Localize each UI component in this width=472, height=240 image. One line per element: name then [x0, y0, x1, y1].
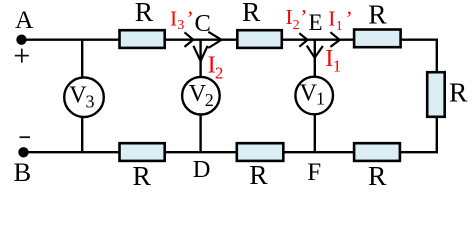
svg-text:V: V [300, 81, 318, 107]
svg-text:R: R [368, 0, 387, 30]
svg-text:R: R [242, 0, 261, 27]
svg-text:’: ’ [187, 6, 194, 30]
svg-text:2: 2 [215, 63, 224, 82]
svg-text:I: I [170, 6, 177, 30]
svg-text:1: 1 [316, 89, 325, 109]
svg-text:C: C [195, 10, 211, 37]
svg-text:I: I [328, 7, 335, 31]
svg-text:B: B [14, 157, 32, 187]
svg-text:3: 3 [177, 18, 184, 33]
svg-text:1: 1 [336, 19, 343, 34]
svg-text:2: 2 [205, 90, 214, 110]
svg-text:2: 2 [293, 18, 300, 33]
svg-text:R: R [135, 0, 154, 27]
svg-text:I: I [286, 5, 293, 29]
svg-text:F: F [307, 159, 321, 186]
svg-text:3: 3 [86, 91, 95, 111]
svg-text:R: R [133, 160, 152, 191]
svg-text:A: A [15, 5, 34, 34]
svg-text:’: ’ [300, 5, 307, 29]
svg-text:R: R [368, 160, 387, 191]
svg-text:R: R [249, 159, 268, 190]
svg-text:’: ’ [346, 7, 353, 31]
svg-text:R: R [449, 77, 468, 108]
svg-text:1: 1 [333, 56, 342, 75]
svg-text:E: E [309, 10, 323, 35]
svg-text:D: D [193, 156, 211, 183]
